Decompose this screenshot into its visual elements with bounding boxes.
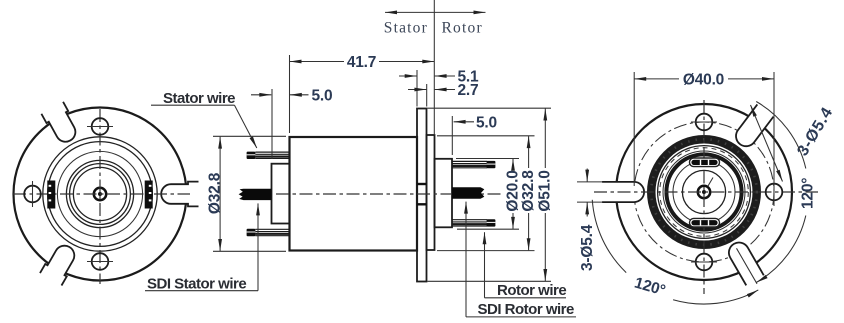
- SDI stator thick wire: [239, 189, 272, 200]
- right view thin circle r41: [663, 151, 745, 233]
- svg-text:41.7: 41.7: [347, 54, 376, 71]
- dimension diameter 40.0: [634, 71, 774, 186]
- right view hidden dashed circle: [660, 148, 749, 237]
- right view top-right mounting slot: [732, 104, 773, 150]
- right view vertical centerline: [703, 100, 705, 294]
- stator bottom ribbon wire: [255, 229, 289, 235]
- dimension 3-diam5.4 left (slot width): [579, 169, 596, 272]
- svg-text:Ø32.8: Ø32.8: [520, 170, 537, 212]
- right view keyway mark: [708, 178, 713, 187]
- dimension 3-diam5.4 top-right leader: [751, 104, 837, 181]
- left view inner housing circle: [57, 151, 142, 236]
- left view left bolt hole: [24, 186, 41, 203]
- right view circle r21.6: [682, 170, 725, 213]
- middle view centerline: [276, 193, 502, 195]
- radial extension line bottom-right slot: [737, 248, 758, 283]
- stator top ribbon wire: [255, 152, 289, 158]
- middle view flange plate: [417, 109, 427, 282]
- dimension diameter 20.0: [456, 159, 521, 230]
- dimension diameter 32.8 right: [437, 136, 537, 251]
- angular dimension 120 right arc: [756, 102, 816, 283]
- middle view rotor disc: [427, 135, 435, 250]
- right view center shaft circle: [698, 186, 710, 198]
- dimension 5.0 left (stator hub): [251, 87, 332, 159]
- rotor bottom ribbon wire: [452, 220, 487, 226]
- dimension 5.0 right (rotor hub): [452, 114, 497, 155]
- rotor top ribbon wire: [452, 161, 487, 167]
- svg-text:SDI Rotor wire: SDI Rotor wire: [478, 301, 575, 318]
- rotor bottom wire connector: [487, 219, 496, 226]
- right view circle r31: [673, 161, 735, 223]
- right view left mounting slot: [602, 182, 644, 202]
- left view outer flange circle: [14, 108, 187, 281]
- label SDI Stator wire: [145, 203, 258, 292]
- svg-text:5.0: 5.0: [312, 87, 333, 104]
- stator bottom wire connector: [247, 229, 256, 236]
- svg-text:Stator wire: Stator wire: [163, 90, 235, 107]
- svg-text:5.0: 5.0: [476, 114, 497, 131]
- left view horizontal centerline: [13, 193, 190, 195]
- right view horizontal centerline: [594, 191, 818, 193]
- dimension 5.1 (flange assembly): [399, 69, 479, 107]
- right view hatched bearing ring: [647, 135, 761, 249]
- svg-text:Rotor: Rotor: [442, 20, 483, 37]
- Stator/Rotor double arrow: [385, 11, 486, 13]
- dimension diameter 32.8 left: [207, 136, 286, 251]
- dimension 2.7 (rotor disc): [408, 82, 478, 107]
- right view bolt circle (dash-dot): [634, 122, 774, 262]
- svg-text:SDI Stator wire: SDI Stator wire: [147, 275, 246, 292]
- svg-text:3-Ø5.4: 3-Ø5.4: [579, 224, 596, 271]
- left view vertical centerline: [99, 109, 101, 284]
- left view top bolt hole: [92, 118, 109, 135]
- left view rotor circles: [66, 160, 133, 227]
- svg-text:120°: 120°: [799, 178, 816, 209]
- svg-text:2.7: 2.7: [458, 82, 479, 99]
- right view slot width extension lines: [577, 181, 603, 183]
- dimension diameter 51.0: [428, 108, 554, 281]
- right view bottom connector block: [690, 218, 720, 227]
- right view outer flange circle: [616, 104, 792, 280]
- left view right connector block: [145, 181, 153, 209]
- dimension 41.7: [290, 54, 435, 133]
- middle view stator body: [290, 137, 418, 251]
- right view heavy rotor circle: [666, 154, 741, 229]
- right view right bolt hole: [766, 184, 783, 201]
- left view top-left mounting slot: [41, 102, 81, 147]
- rotor top wire connector: [487, 161, 496, 168]
- right view top connector block: [690, 158, 720, 167]
- left view bearing housing ring: [43, 137, 157, 251]
- middle view rotor hub: [435, 159, 453, 228]
- svg-text:Rotor wire: Rotor wire: [497, 282, 566, 299]
- SDI rotor thick wire: [452, 187, 484, 198]
- stator top wire connector: [247, 152, 256, 159]
- label Rotor wire: [485, 232, 567, 299]
- right view bottom bolt hole: [696, 254, 713, 271]
- Stator/Rotor divider line: [433, 0, 435, 135]
- left view bottom bolt hole: [92, 253, 109, 270]
- label Stator wire: [151, 90, 257, 148]
- left view center shaft circle: [94, 188, 106, 200]
- right view bottom-right mounting slot: [725, 239, 764, 286]
- right view top bolt hole: [696, 114, 713, 131]
- svg-text:Ø20.0: Ø20.0: [504, 170, 521, 211]
- left view left connector block: [47, 181, 55, 209]
- svg-text:Ø51.0: Ø51.0: [537, 170, 554, 211]
- left view bottom-left mounting slot: [40, 241, 80, 286]
- svg-text:Ø32.8: Ø32.8: [207, 172, 224, 214]
- svg-text:Ø40.0: Ø40.0: [683, 71, 724, 88]
- middle view stator hub: [272, 164, 290, 224]
- left view right mounting slot: [161, 182, 198, 207]
- label SDI Rotor wire: [466, 202, 576, 318]
- flange plate center bore edges: [417, 183, 427, 185]
- angular dimension 120 bottom arc: [592, 200, 758, 304]
- svg-text:Stator: Stator: [384, 20, 428, 37]
